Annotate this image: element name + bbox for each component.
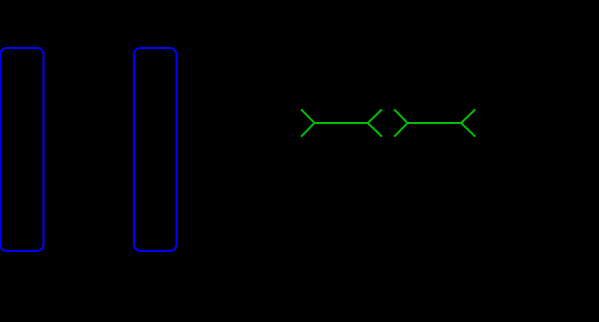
blue rounded-rect component body 2 xyxy=(134,48,177,251)
green link element 1: left fork xyxy=(302,110,315,136)
green link element 2: wire xyxy=(408,122,462,124)
green link element 2: left fork xyxy=(395,110,408,136)
green link element 1: wire xyxy=(315,122,368,124)
blue rounded-rect component body 1 xyxy=(0,48,43,251)
green link element 1: right fork xyxy=(368,110,382,136)
green link element 2: right fork xyxy=(461,110,475,136)
